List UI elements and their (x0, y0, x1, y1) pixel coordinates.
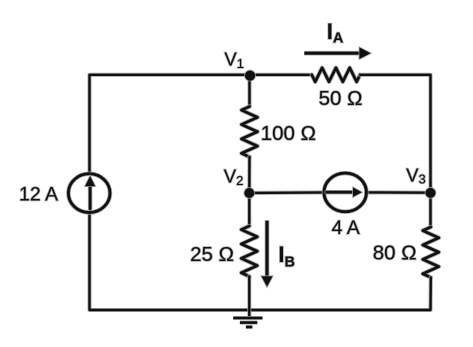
svg-text:4 A: 4 A (332, 217, 360, 239)
wire: top-right corner segment down to 80-ohm resistor, node V3 on the way (360, 75, 431, 227)
resistor R4 80 ohm (zigzag on right branch) (423, 227, 439, 277)
node V2 junction dot (244, 188, 254, 198)
svg-text:IB: IB (278, 242, 295, 271)
wire: left branch and top wire from bottom of 12A source loop corner to 50-ohm resistor (90, 75, 312, 172)
svg-text:12 A: 12 A (19, 183, 58, 205)
wire: right branch lower, bottom wire, left branch lower (90, 214, 431, 310)
node V1 junction dot (245, 71, 255, 81)
wire: 25-ohm resistor through bottom wire down to ground (247, 276, 251, 317)
wire: node V2 down to 25-ohm resistor (247, 193, 251, 226)
resistor R3 25 ohm (zigzag on ground branch) (241, 226, 257, 276)
current source 12 A (circle with upward arrow) (68, 174, 110, 213)
svg-text:V2: V2 (224, 165, 244, 188)
wire: node V2 to 4A current source (249, 190, 324, 195)
svg-text:V3: V3 (406, 165, 426, 187)
resistor R1 50 ohm (zigzag on top wire) (312, 68, 360, 82)
arrow for current direction I_A (304, 47, 370, 59)
arrow for current direction I_B (261, 221, 272, 287)
svg-text:IA: IA (327, 19, 344, 47)
svg-text:100 Ω: 100 Ω (261, 122, 316, 145)
ground symbol (three bars) (233, 318, 262, 327)
resistor R2 100 ohm (zigzag on middle branch) (242, 107, 258, 157)
svg-text:V1: V1 (224, 48, 244, 71)
node V3 junction dot (426, 188, 436, 198)
svg-text:25 Ω: 25 Ω (190, 243, 234, 266)
wire: 4A current source to node V3 (366, 190, 431, 194)
current source 4 A (circle with rightward arrow) (324, 173, 366, 212)
wire: node V1 down to 100-ohm resistor (247, 75, 251, 107)
wire: 100-ohm resistor down to node V2 (247, 157, 251, 193)
svg-text:50 Ω: 50 Ω (319, 87, 363, 110)
svg-text:80 Ω: 80 Ω (373, 241, 417, 264)
